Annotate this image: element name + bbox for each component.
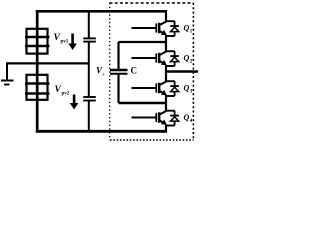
svg-text:Q: Q — [184, 84, 190, 93]
svg-text:Q: Q — [184, 113, 190, 122]
svg-text:c: c — [103, 72, 105, 77]
svg-text:C: C — [131, 66, 138, 76]
svg-text:pv2: pv2 — [62, 92, 70, 97]
svg-text:Q: Q — [184, 54, 190, 63]
svg-text:V: V — [55, 85, 62, 95]
svg-text:Q: Q — [184, 24, 190, 33]
svg-text:V: V — [54, 33, 61, 43]
svg-text:pv1: pv1 — [61, 40, 69, 45]
